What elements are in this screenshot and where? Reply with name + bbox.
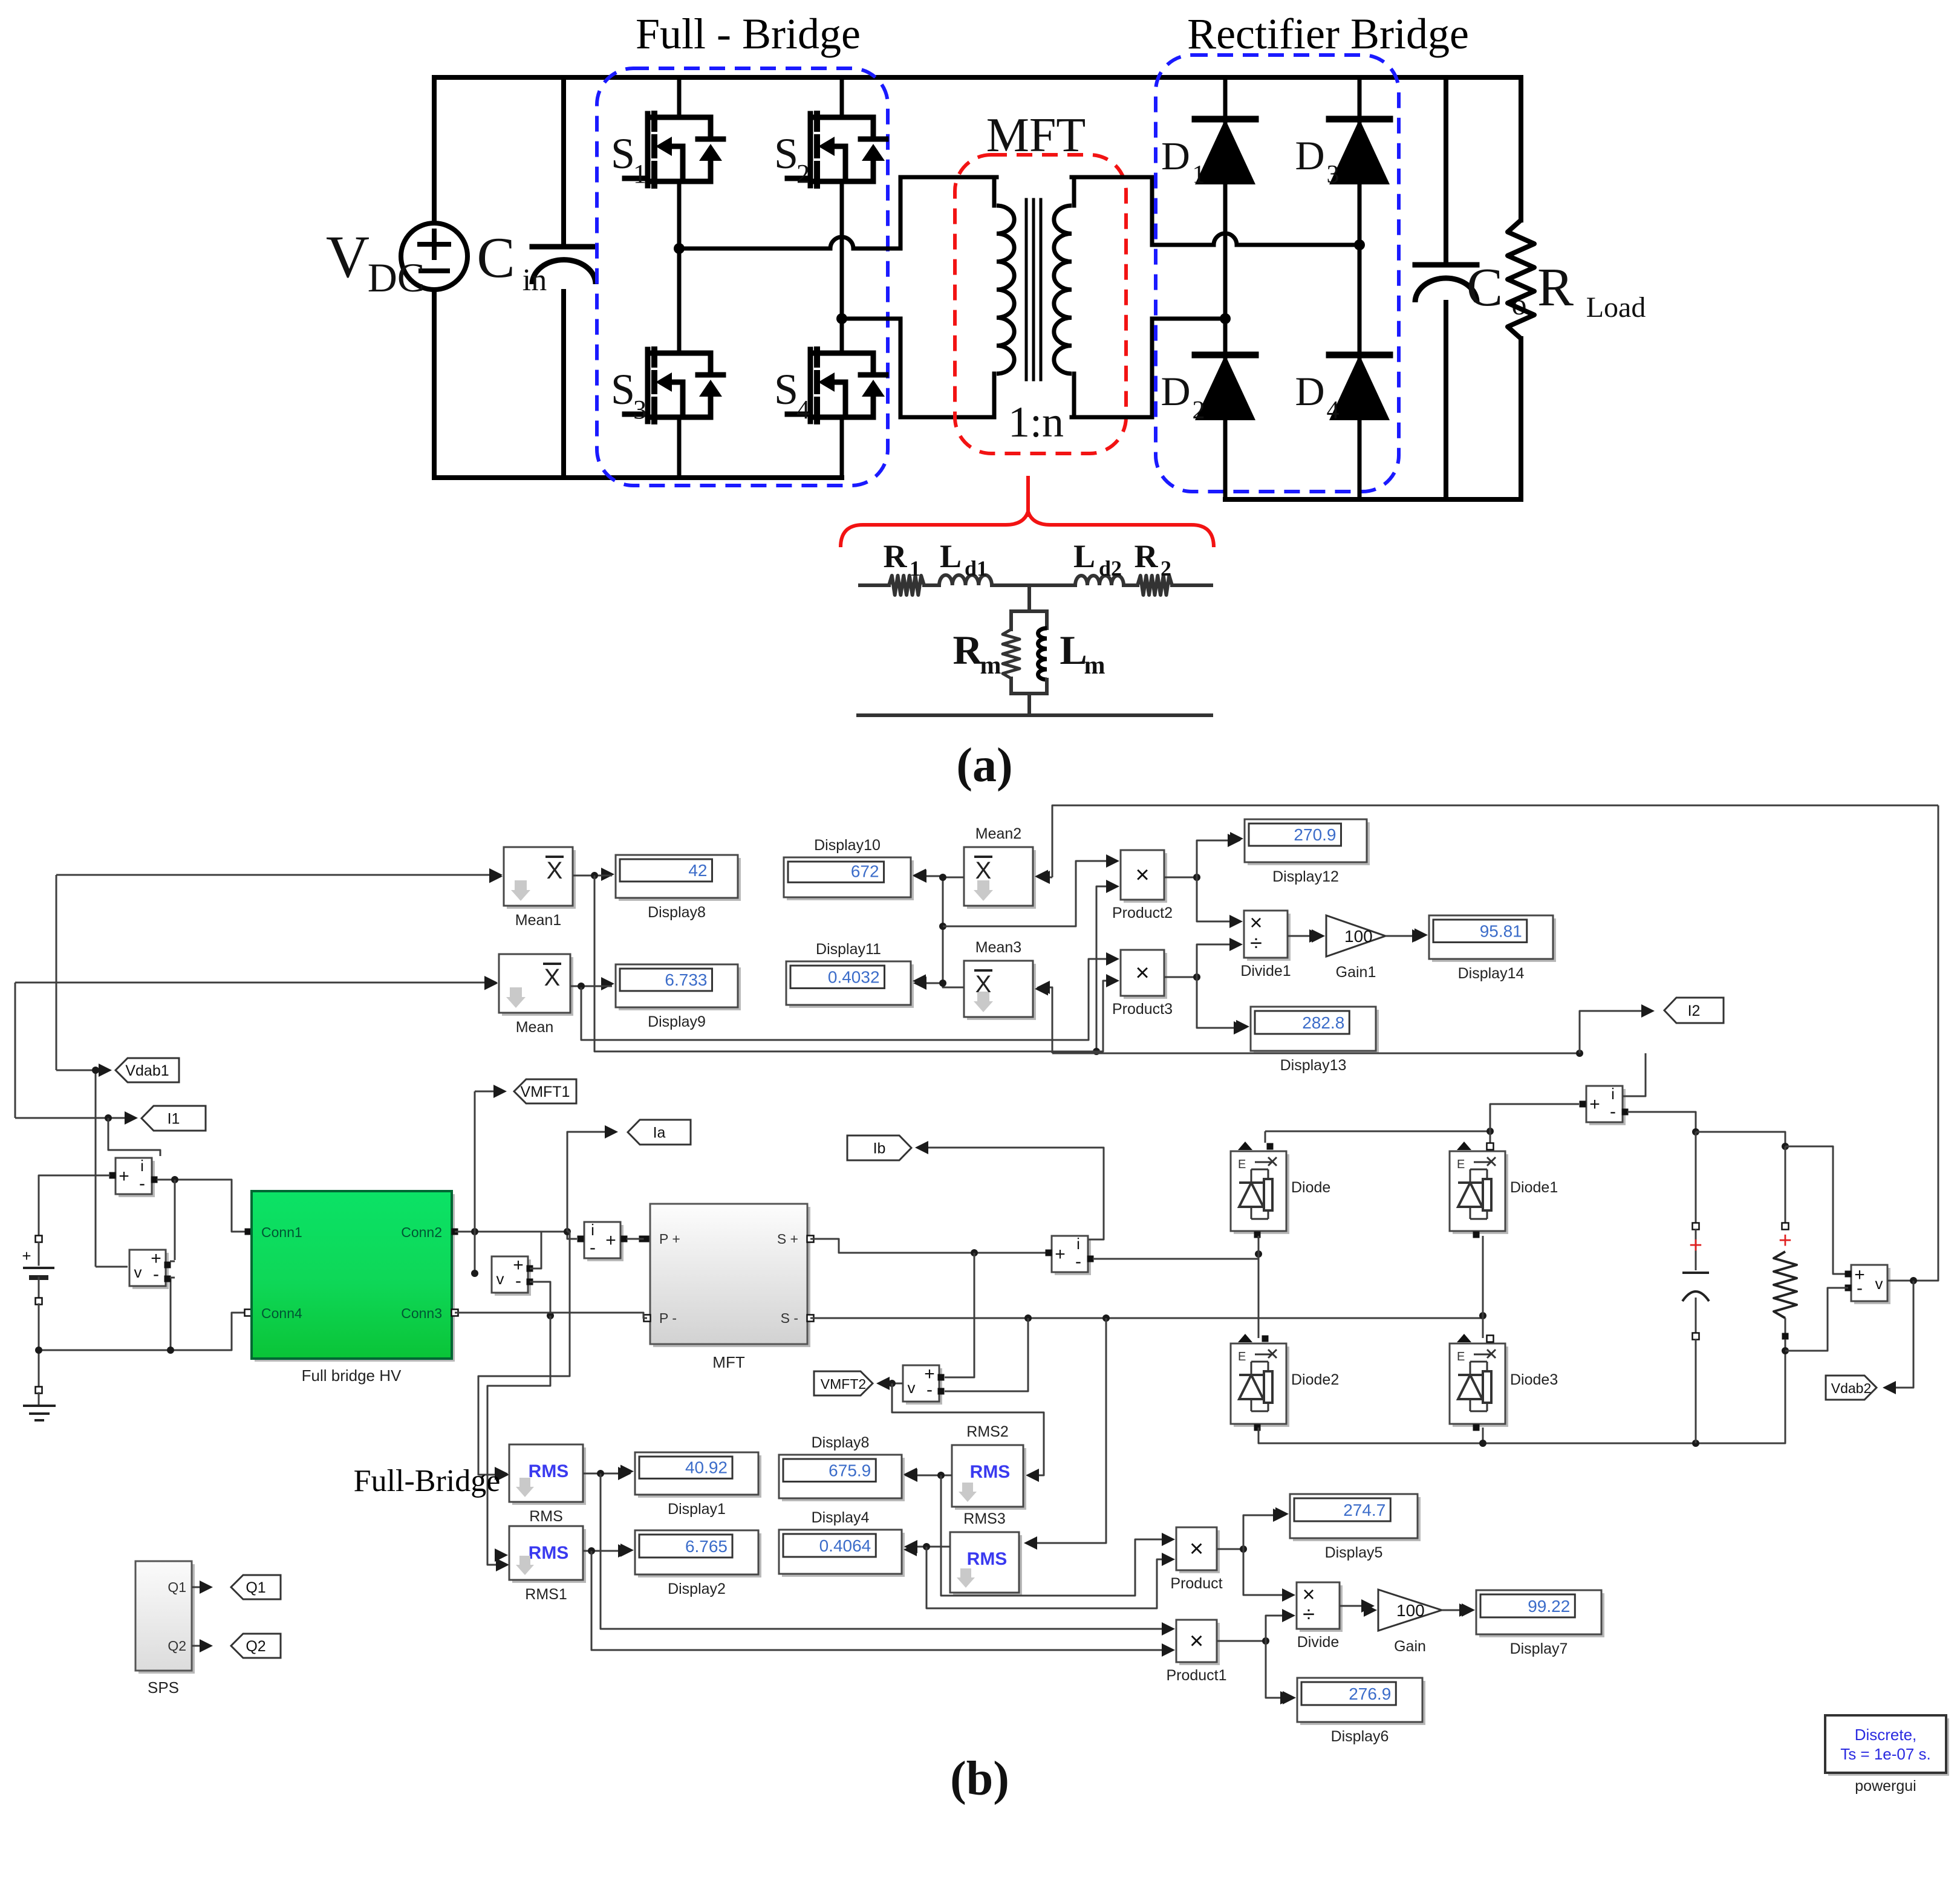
svg-text:270.9: 270.9 — [1294, 825, 1336, 844]
svg-text:Divide: Divide — [1297, 1634, 1339, 1651]
svg-text:Diode1: Diode1 — [1510, 1179, 1558, 1196]
svg-text:100: 100 — [1396, 1601, 1425, 1620]
gain Gain — [1340, 1605, 1371, 1607]
svg-text:Q2: Q2 — [246, 1638, 265, 1655]
goto tag VMFT1 — [474, 1232, 476, 1273]
svg-text:Product1: Product1 — [1166, 1667, 1226, 1684]
transformer primary winding — [997, 206, 1014, 374]
display Display1 — [583, 1473, 628, 1475]
capacitor Co — [1444, 77, 1448, 265]
goto tag Ia — [567, 1132, 614, 1232]
voltage measurement v primary — [495, 1259, 531, 1296]
red curly brace — [841, 512, 1214, 547]
current measurement i secondary — [1055, 1239, 1091, 1275]
svg-text:Q1: Q1 — [168, 1579, 186, 1595]
wire Display2 branch to Product1 — [591, 1551, 1164, 1650]
wire Product2 out — [1164, 877, 1197, 879]
wire shunt stem bottom — [1027, 694, 1031, 715]
block Mean — [502, 957, 573, 1016]
wire i secondary out to rectifier — [1093, 1253, 1258, 1259]
svg-text:-: - — [153, 1264, 159, 1284]
svg-text:+: + — [1589, 1094, 1600, 1114]
wire rectifier top rail — [1265, 1131, 1490, 1132]
svg-text:Load: Load — [1586, 291, 1646, 323]
svg-text:3: 3 — [1327, 161, 1340, 189]
transistor S4 — [808, 349, 813, 421]
inductor Ld1 — [924, 583, 939, 587]
svg-text:RMS: RMS — [529, 1543, 569, 1563]
wire riser to RMS — [567, 1231, 570, 1233]
node B full-bridge midpoint right — [836, 313, 847, 324]
block Mean1 — [507, 850, 576, 909]
svg-text:42: 42 — [688, 861, 707, 880]
svg-text:v: v — [1875, 1275, 1883, 1293]
svg-text:+: + — [1055, 1244, 1066, 1264]
svg-text:R: R — [884, 538, 908, 574]
transformer secondary winding — [1054, 206, 1072, 374]
wire bottom bus left — [434, 475, 842, 480]
wire I1 signal from current sensor — [108, 1118, 160, 1156]
wire left leg mid — [1258, 1236, 1260, 1338]
goto tag Q2 — [192, 1645, 209, 1647]
svg-text:v: v — [908, 1379, 916, 1397]
svg-text:×: × — [1135, 862, 1149, 888]
wire v1 riser — [174, 1180, 176, 1260]
svg-text:+: + — [22, 1247, 31, 1265]
svg-text:Gain: Gain — [1394, 1638, 1426, 1655]
goto tag I1 — [15, 1117, 134, 1119]
node secondary lower to D1 leg — [1220, 313, 1231, 324]
svg-text:+: + — [605, 1230, 616, 1250]
wire feedback top rail to Mean2 Mean3 — [1052, 805, 1938, 877]
svg-text:I1: I1 — [168, 1111, 180, 1128]
wire shunt stem — [1027, 585, 1031, 611]
svg-text:Display13: Display13 — [1280, 1057, 1347, 1074]
gain Gain1 — [1288, 935, 1319, 937]
wire bridge output lower — [842, 317, 900, 321]
wire battery plus to i — [39, 1175, 110, 1239]
wire RMS2 branch to Product — [941, 1475, 1164, 1596]
subsystem MFT block — [653, 1207, 810, 1347]
svg-text:Product2: Product2 — [1112, 905, 1173, 921]
svg-text:Ia: Ia — [653, 1125, 666, 1142]
diode block Diode1 — [1453, 1154, 1508, 1234]
svg-text:Product3: Product3 — [1112, 1001, 1173, 1018]
shunt branch Rm Lm parallel — [1011, 609, 1047, 613]
svg-text:-: - — [926, 1380, 933, 1400]
svg-text:Diode3: Diode3 — [1510, 1371, 1558, 1388]
block Product3 — [1124, 953, 1167, 999]
wire equivalent circuit top line — [860, 583, 889, 587]
svg-text:95.81: 95.81 — [1480, 921, 1522, 940]
svg-text:(b): (b) — [950, 1752, 1009, 1805]
svg-text:+: + — [119, 1166, 129, 1186]
block Mean2 — [967, 850, 1036, 909]
wire RMS3 to Display4 — [905, 1546, 950, 1548]
goto tag VMFT2 — [879, 1383, 903, 1385]
svg-text:-: - — [1857, 1278, 1863, 1298]
svg-text:i: i — [1611, 1085, 1615, 1103]
svg-text:D: D — [1295, 132, 1324, 178]
svg-text:R: R — [952, 627, 983, 673]
display Display11 — [789, 964, 914, 1008]
svg-text:R: R — [1537, 258, 1574, 317]
svg-text:m: m — [1084, 652, 1105, 680]
svg-text:V: V — [326, 223, 370, 290]
wire i out to cap rail — [1627, 1112, 1696, 1131]
svg-text:i: i — [591, 1221, 594, 1239]
svg-text:Display4: Display4 — [812, 1509, 870, 1526]
transistor S3 — [645, 349, 651, 421]
ground — [36, 1387, 42, 1394]
svg-text:E: E — [1457, 1158, 1465, 1171]
svg-text:276.9: 276.9 — [1349, 1684, 1391, 1703]
wire Mean2 Mean3 outputs to Display10 Display11 — [943, 877, 964, 987]
wire S+ line — [810, 1239, 1047, 1253]
svg-text:Display7: Display7 — [1510, 1640, 1568, 1657]
block Product2 — [1124, 853, 1167, 903]
svg-text:VMFT2: VMFT2 — [821, 1376, 866, 1392]
wire I1 to Mean — [15, 982, 495, 984]
wire center segment — [992, 583, 1075, 587]
svg-text:-: - — [139, 1174, 145, 1194]
svg-text:RMS: RMS — [967, 1549, 1008, 1569]
wire Product1 out — [1217, 1640, 1266, 1642]
display Display13 — [1254, 1010, 1379, 1054]
svg-text:675.9: 675.9 — [829, 1461, 871, 1480]
svg-text:VMFT1: VMFT1 — [521, 1083, 570, 1100]
svg-text:Full bridge HV: Full bridge HV — [302, 1366, 402, 1385]
svg-text:Q2: Q2 — [168, 1638, 186, 1654]
svg-text:Display14: Display14 — [1458, 965, 1525, 982]
svg-text:Vdab2: Vdab2 — [1831, 1380, 1872, 1396]
goto tag I2 — [1052, 1053, 1580, 1054]
svg-text:Conn4: Conn4 — [261, 1305, 302, 1321]
svg-text:Mean1: Mean1 — [515, 912, 561, 929]
goto tag Vdab2 — [1885, 1281, 1913, 1388]
svg-text:Display10: Display10 — [814, 837, 881, 854]
diode D3 — [1329, 119, 1390, 184]
wire rail riser to i — [1490, 1104, 1579, 1131]
svg-text:Product: Product — [1170, 1575, 1222, 1592]
svg-text:RMS1: RMS1 — [525, 1586, 567, 1603]
display Display6 — [1300, 1681, 1425, 1725]
svg-text:P +: P + — [659, 1231, 680, 1247]
battery DC source — [36, 1236, 42, 1243]
capacitor output branch — [1695, 1132, 1697, 1223]
svg-text:Gain1: Gain1 — [1336, 964, 1376, 981]
wire to RMS3 — [1026, 1318, 1106, 1543]
svg-text:Mean: Mean — [516, 1019, 554, 1036]
svg-text:Conn1: Conn1 — [261, 1224, 302, 1240]
svg-text:i: i — [1076, 1235, 1080, 1253]
display Display10 — [787, 860, 914, 900]
resistor Rm — [1003, 629, 1020, 678]
svg-text:D: D — [1295, 368, 1324, 414]
svg-text:Display11: Display11 — [816, 941, 881, 958]
svg-text:X: X — [975, 857, 992, 884]
svg-text:Display9: Display9 — [648, 1013, 706, 1030]
goto tag Q1 — [192, 1587, 209, 1588]
svg-text:RMS: RMS — [970, 1462, 1011, 1482]
svg-text:d2: d2 — [1099, 556, 1122, 580]
svg-text:Q1: Q1 — [246, 1579, 265, 1596]
svg-text:E: E — [1238, 1158, 1246, 1171]
svg-text:C: C — [477, 226, 515, 290]
wire left vertical — [432, 77, 437, 224]
svg-text:Mean2: Mean2 — [975, 825, 1021, 842]
wire inputs Product3 — [581, 959, 1109, 1040]
subsystem Full bridge HV green — [255, 1194, 455, 1362]
svg-text:-: - — [515, 1271, 521, 1291]
svg-text:v: v — [497, 1270, 504, 1288]
svg-text:S: S — [774, 365, 798, 414]
display Display5 — [1217, 1548, 1243, 1550]
wire equivalent circuit bottom line — [858, 713, 1211, 717]
svg-text:672: 672 — [851, 862, 879, 880]
svg-text:Ts = 1e-07 s.: Ts = 1e-07 s. — [1840, 1745, 1931, 1763]
svg-text:RMS3: RMS3 — [963, 1510, 1005, 1527]
wire S- line — [810, 1316, 1483, 1318]
display Display4 — [782, 1533, 905, 1577]
svg-text:-: - — [1075, 1252, 1081, 1272]
svg-text:R: R — [1135, 538, 1159, 574]
wire I2 signal — [1623, 1053, 1646, 1096]
diode D2 — [1195, 355, 1255, 420]
goto tag Vdab1 — [56, 1070, 96, 1267]
svg-text:L: L — [1073, 538, 1095, 574]
display Display9 — [619, 967, 741, 1010]
resistor RLoad — [1519, 77, 1523, 220]
svg-text:v: v — [134, 1263, 142, 1281]
svg-text:1: 1 — [633, 159, 646, 189]
svg-text:Display5: Display5 — [1325, 1544, 1383, 1561]
svg-text:m: m — [980, 652, 1001, 680]
svg-text:Diode: Diode — [1291, 1179, 1330, 1196]
svg-text:4: 4 — [1327, 397, 1340, 424]
powergui block — [1828, 1718, 1949, 1776]
svg-text:282.8: 282.8 — [1302, 1013, 1344, 1032]
wire Mean to Display9 — [570, 986, 612, 987]
node secondary upper to D3 leg — [1354, 239, 1365, 250]
svg-text:2: 2 — [1161, 556, 1171, 580]
block Divide — [1243, 1549, 1284, 1595]
svg-text:powergui: powergui — [1855, 1778, 1916, 1795]
wire Conn3 to P- — [455, 1313, 647, 1318]
svg-text:×: × — [1135, 960, 1149, 986]
wire v ports to riser — [170, 1261, 175, 1262]
transistor S1 — [645, 114, 651, 186]
svg-text:(a): (a) — [956, 739, 1012, 792]
block Product1 — [1179, 1623, 1220, 1665]
red stem from MFT box — [1026, 478, 1030, 515]
svg-text:L: L — [940, 538, 962, 574]
svg-text:X: X — [547, 857, 563, 884]
wire S1 leg — [677, 77, 682, 117]
wire top bus — [434, 75, 1521, 80]
svg-text:Conn3: Conn3 — [401, 1305, 442, 1321]
wire i to P+ — [627, 1238, 647, 1240]
dc source VDC — [401, 223, 467, 290]
svg-text:S: S — [611, 365, 635, 414]
block Product — [1179, 1530, 1220, 1573]
block Mean3 — [967, 964, 1036, 1020]
wire Vdab1 to Mean1 — [56, 874, 500, 876]
diode block Diode3 — [1453, 1347, 1508, 1427]
svg-text:d1: d1 — [965, 556, 988, 580]
wire bottom rail battery to Conn4 — [39, 1313, 248, 1350]
svg-text:-: - — [590, 1238, 596, 1258]
wire RMS2 to Display8 — [905, 1475, 952, 1477]
full-bridge dashed box — [597, 68, 888, 486]
svg-text:Diode2: Diode2 — [1291, 1371, 1339, 1388]
wire v minus — [1785, 1288, 1848, 1351]
svg-text:Vdab1: Vdab1 — [125, 1062, 169, 1079]
svg-text:2: 2 — [796, 159, 810, 189]
svg-text:D: D — [1161, 368, 1190, 414]
svg-text:0.4032: 0.4032 — [828, 967, 880, 986]
node A full-bridge midpoint left — [674, 243, 685, 254]
svg-text:6.733: 6.733 — [665, 970, 707, 989]
wire Conn2 to primary i sensor — [455, 1232, 577, 1239]
svg-text:RMS: RMS — [529, 1508, 563, 1525]
svg-text:MFT: MFT — [712, 1353, 745, 1371]
svg-text:1: 1 — [1193, 161, 1205, 189]
display Display8 — [619, 858, 741, 901]
svg-text:÷: ÷ — [1250, 931, 1262, 955]
wire D1-D2 leg — [1223, 77, 1228, 499]
block Divide1 — [1247, 914, 1291, 961]
svg-text:in: in — [523, 263, 547, 297]
voltage measurement v secondary — [906, 1368, 942, 1405]
wire right leg mid — [1482, 1236, 1484, 1338]
svg-text:S: S — [611, 129, 635, 178]
diode block Diode — [1234, 1154, 1289, 1234]
svg-text:Divide1: Divide1 — [1240, 963, 1291, 979]
svg-text:×: × — [1190, 1628, 1203, 1654]
svg-text:100: 100 — [1344, 927, 1373, 946]
transistor S2 — [808, 114, 813, 186]
display Display7 — [1442, 1610, 1469, 1611]
svg-text:99.22: 99.22 — [1528, 1597, 1570, 1616]
svg-text:2: 2 — [1193, 397, 1205, 424]
svg-text:Discrete,: Discrete, — [1855, 1726, 1917, 1744]
svg-text:Display1: Display1 — [668, 1501, 726, 1518]
voltage measurement v output — [1854, 1268, 1890, 1304]
svg-text:i: i — [140, 1157, 144, 1175]
MFT dashed box red — [955, 155, 1126, 453]
svg-text:DC: DC — [368, 255, 425, 301]
svg-text:1:n: 1:n — [1008, 398, 1064, 446]
wire secondary lower lead — [1072, 374, 1076, 417]
svg-text:÷: ÷ — [1303, 1602, 1315, 1626]
wire S2 leg — [840, 77, 844, 117]
subsystem SPS — [138, 1564, 195, 1674]
svg-text:0.4064: 0.4064 — [819, 1536, 871, 1555]
display Display14 — [1385, 935, 1422, 937]
resistor R1 — [889, 576, 924, 595]
wire Mean1 to Display8 — [573, 875, 612, 877]
wire Product3 out — [1164, 976, 1197, 978]
svg-text:Display2: Display2 — [668, 1580, 726, 1597]
diode D4 — [1329, 355, 1390, 420]
wire to v output plus — [1785, 1146, 1848, 1274]
block RMS — [512, 1447, 586, 1505]
block RMS2 — [955, 1448, 1026, 1510]
svg-text:Display8: Display8 — [648, 904, 706, 921]
svg-text:P -: P - — [659, 1310, 677, 1326]
svg-text:Full - Bridge: Full - Bridge — [636, 10, 861, 58]
svg-text:E: E — [1457, 1350, 1465, 1363]
wire bridge output upper with hop — [679, 237, 900, 249]
svg-text:C: C — [1467, 258, 1503, 317]
svg-text:X: X — [975, 971, 992, 998]
svg-text:S +: S + — [777, 1231, 798, 1247]
svg-text:L: L — [1060, 627, 1087, 673]
wire secondary upper lead with hop — [1072, 177, 1076, 206]
svg-text:E: E — [1238, 1350, 1246, 1363]
voltage measurement v battery — [132, 1253, 169, 1289]
wire RMS3 branch to Product — [926, 1547, 1164, 1608]
wire Display1 branch to Product1 — [601, 1473, 1164, 1629]
current measurement i output — [1589, 1089, 1626, 1125]
inductor Ld2 — [1075, 576, 1124, 585]
display Display2 — [583, 1550, 628, 1552]
display Display12 — [1248, 822, 1370, 865]
svg-text:40.92: 40.92 — [685, 1458, 728, 1477]
svg-text:+: + — [1689, 1233, 1702, 1258]
inductor Lm — [1038, 628, 1047, 680]
svg-text:6.765: 6.765 — [685, 1537, 728, 1556]
wire bottom bus right — [1225, 497, 1521, 502]
svg-text:RMS2: RMS2 — [966, 1423, 1008, 1440]
svg-text:MFT: MFT — [986, 109, 1086, 162]
svg-text:Full-Bridge: Full-Bridge — [354, 1464, 501, 1498]
svg-text:4: 4 — [796, 395, 810, 424]
svg-text:D: D — [1161, 134, 1190, 178]
svg-text:Conn2: Conn2 — [401, 1224, 442, 1240]
diode D1 — [1195, 119, 1255, 184]
wire riser to RMS1 — [487, 1316, 550, 1565]
svg-text:Mean3: Mean3 — [975, 939, 1021, 956]
resistor load branch — [1785, 1146, 1786, 1223]
svg-text:S -: S - — [781, 1310, 798, 1326]
wire v out feedback — [1887, 805, 1938, 1281]
diode block Diode2 — [1234, 1347, 1289, 1427]
wire v output to Vdab1 riser — [96, 1266, 128, 1268]
svg-text:RMS: RMS — [529, 1461, 569, 1481]
svg-text:3: 3 — [633, 395, 646, 424]
svg-text:274.7: 274.7 — [1343, 1501, 1385, 1519]
block RMS3 — [953, 1535, 1022, 1596]
svg-text:-: - — [1610, 1102, 1616, 1122]
current measurement i battery — [119, 1161, 155, 1197]
svg-text:SPS: SPS — [148, 1678, 179, 1697]
wire D3-D4 leg — [1358, 77, 1362, 499]
svg-text:Display6: Display6 — [1331, 1728, 1389, 1745]
svg-text:Display12: Display12 — [1272, 868, 1339, 885]
svg-text:Ib: Ib — [873, 1140, 886, 1157]
svg-text:I2: I2 — [1688, 1002, 1701, 1019]
svg-text:+: + — [1779, 1228, 1792, 1253]
goto tag Ib — [847, 1135, 911, 1160]
block RMS1 — [512, 1529, 586, 1583]
svg-text:S: S — [774, 129, 798, 178]
svg-text:Rectifier Bridge: Rectifier Bridge — [1187, 10, 1469, 58]
transformer core lines — [1025, 200, 1028, 380]
svg-text:X: X — [544, 964, 561, 991]
svg-text:1: 1 — [910, 556, 920, 580]
